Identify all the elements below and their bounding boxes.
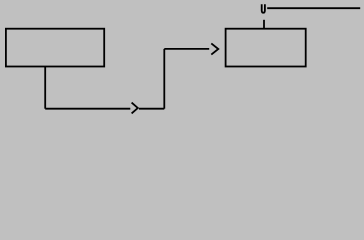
wire top horizontal to right edge [267,7,360,9]
arrowhead right before B2 [211,43,218,54]
box B1 [6,29,104,67]
wire upper horizontal segment [164,48,209,50]
wire stub down from B1 bottom [44,67,46,109]
wire vertical drop into B2 top [263,20,265,29]
wire bottom horizontal continuation [139,108,164,110]
box B2 [226,29,306,67]
wire vertical riser [163,49,165,109]
arrowhead down (U glyph) above B2 [262,4,265,12]
wire bottom horizontal segment [45,108,130,110]
arrowhead right on bottom wire [132,103,138,114]
